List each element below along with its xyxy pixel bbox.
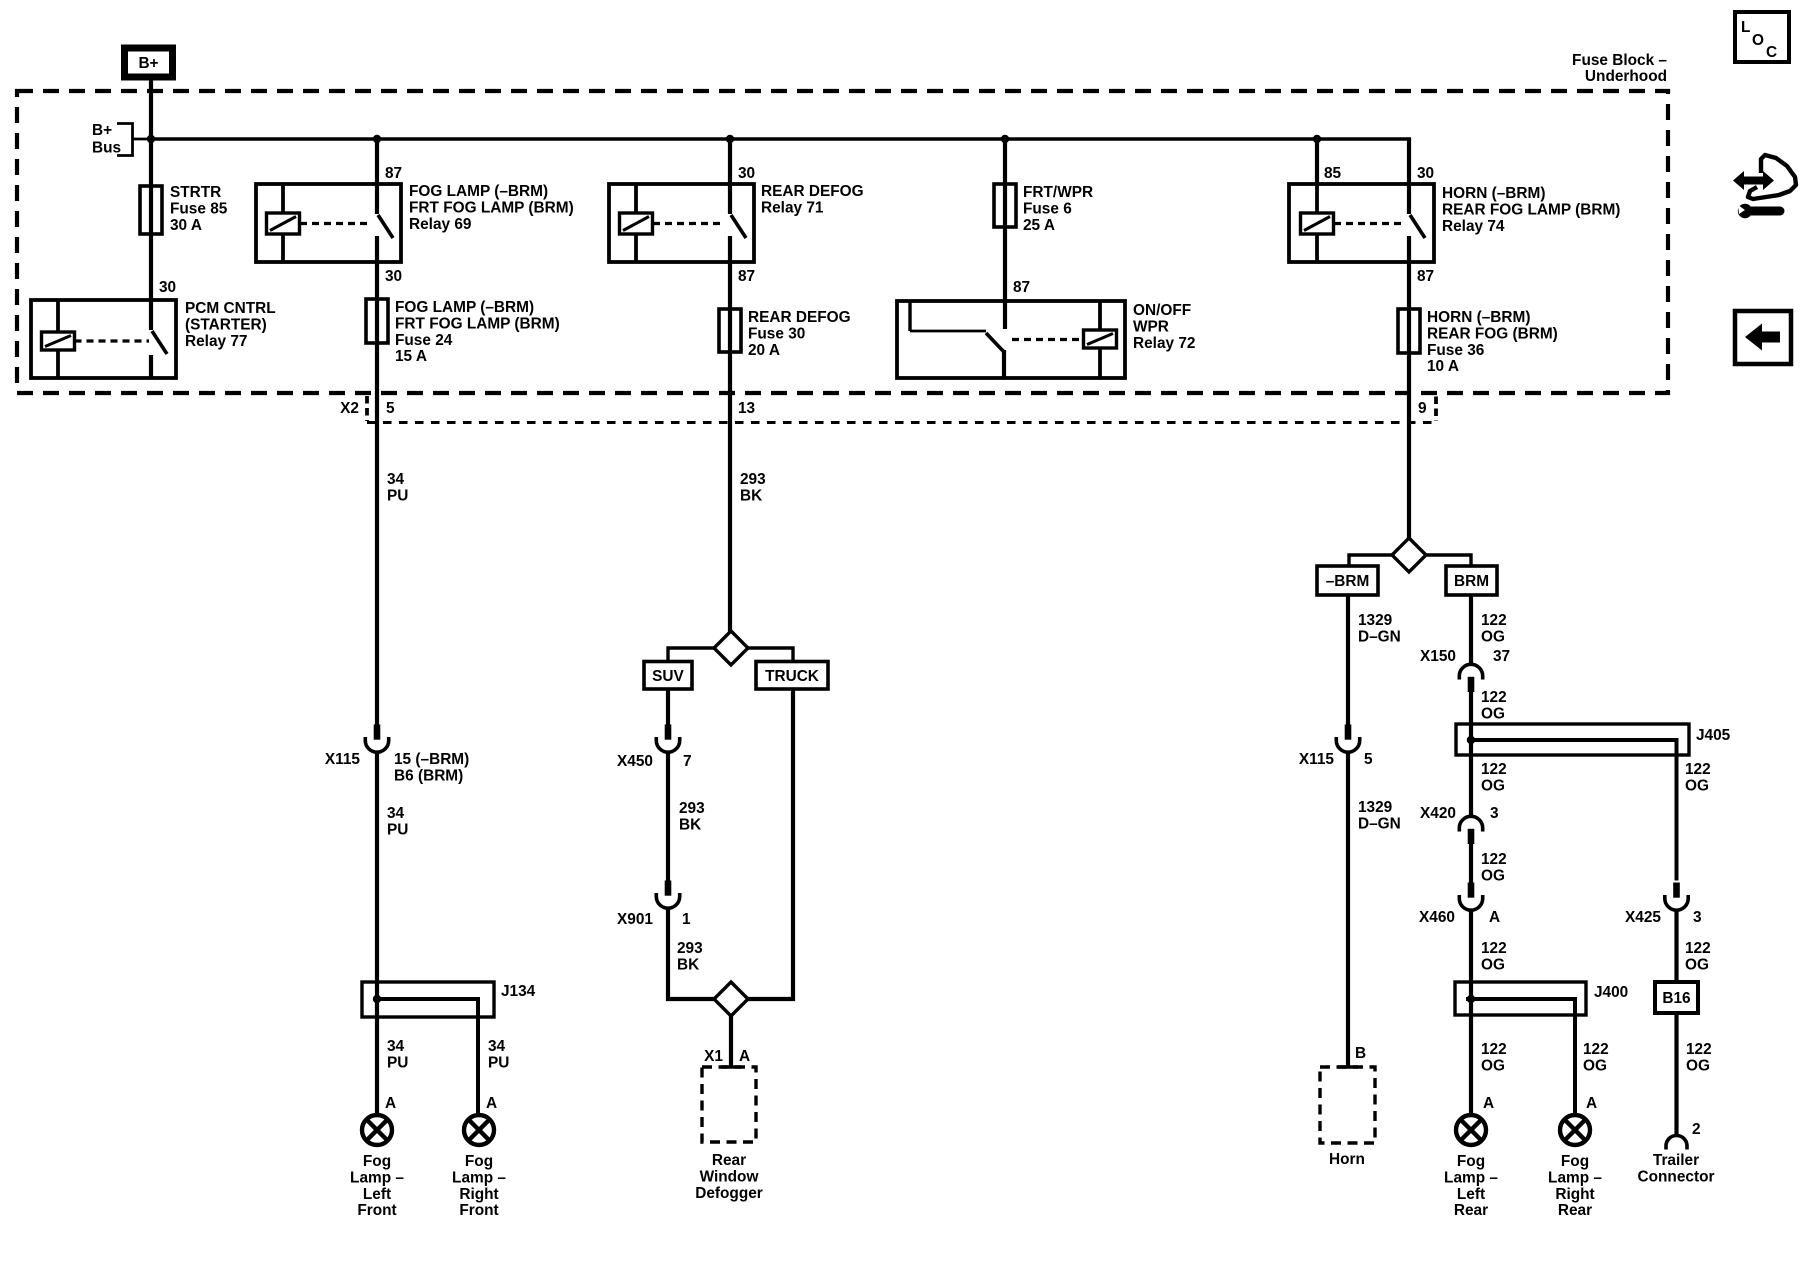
svg-text:2: 2 xyxy=(1692,1121,1701,1138)
svg-text:BK: BK xyxy=(677,956,699,973)
merge diamond to defogger xyxy=(714,982,748,1016)
svg-text:Relay 69: Relay 69 xyxy=(409,216,471,233)
wire bus to relay 69 xyxy=(375,139,379,214)
svg-text:122: 122 xyxy=(1481,689,1507,706)
wire diamond to rear window defogger xyxy=(729,1015,733,1067)
wire X460 to splice J400 xyxy=(1469,911,1473,1114)
svg-text:15 A: 15 A xyxy=(395,348,427,365)
svg-text:PU: PU xyxy=(488,1054,509,1071)
B+ bus line xyxy=(151,137,1411,141)
wire relay 74 to fuse 36 xyxy=(1407,236,1411,539)
fuse F30 REAR DEFOG xyxy=(719,309,741,352)
svg-text:ON/OFF: ON/OFF xyxy=(1133,302,1191,319)
svg-text:13: 13 xyxy=(738,400,755,417)
svg-text:Left: Left xyxy=(363,1186,391,1203)
svg-text:30: 30 xyxy=(1417,165,1434,182)
wire bus corner to relay 74 pin 30 xyxy=(1407,139,1411,214)
LOC reference icon xyxy=(1735,12,1789,62)
svg-text:122: 122 xyxy=(1481,1041,1507,1058)
svg-text:Front: Front xyxy=(357,1202,396,1219)
svg-text:PU: PU xyxy=(387,821,408,838)
svg-text:34: 34 xyxy=(387,471,405,488)
svg-text:OG: OG xyxy=(1481,777,1505,794)
node bus to fuse 6 xyxy=(1001,135,1009,143)
svg-text:9: 9 xyxy=(1418,400,1427,417)
in-line connector X115 pin 15/B6 xyxy=(374,725,381,740)
svg-text:B6 (BRM): B6 (BRM) xyxy=(394,767,463,784)
svg-text:A: A xyxy=(739,1048,750,1065)
rear window defogger component box xyxy=(721,1065,741,1069)
svg-text:J134: J134 xyxy=(501,983,536,1000)
svg-text:Front: Front xyxy=(459,1202,498,1219)
svg-text:Fuse 6: Fuse 6 xyxy=(1023,200,1072,217)
svg-text:122: 122 xyxy=(1583,1041,1609,1058)
svg-text:87: 87 xyxy=(738,268,755,285)
svg-text:PU: PU xyxy=(387,1054,408,1071)
svg-text:122: 122 xyxy=(1686,1041,1712,1058)
svg-text:5: 5 xyxy=(1364,751,1373,768)
svg-text:1329: 1329 xyxy=(1358,799,1392,816)
fuse F24 FOG LAMP xyxy=(366,299,388,343)
svg-text:X2: X2 xyxy=(340,400,359,417)
relay K77 PCM CNTRL xyxy=(31,300,176,378)
svg-text:BRM: BRM xyxy=(1454,573,1489,590)
svg-text:34: 34 xyxy=(387,805,405,822)
relay K71 REAR DEFOG xyxy=(609,184,754,262)
svg-text:X460: X460 xyxy=(1419,909,1455,926)
svg-text:34: 34 xyxy=(488,1038,506,1055)
svg-text:7: 7 xyxy=(683,753,692,770)
splice pack J400 xyxy=(1455,982,1586,1015)
svg-text:85: 85 xyxy=(1324,165,1342,182)
svg-text:REAR DEFOG: REAR DEFOG xyxy=(748,309,851,326)
svg-text:A: A xyxy=(1586,1095,1597,1112)
in-line connector X425 pin 3 xyxy=(1673,883,1680,898)
svg-text:10 A: 10 A xyxy=(1427,358,1459,375)
wire X115 to horn xyxy=(1346,753,1350,1067)
wire diamond to -BRM option xyxy=(1349,555,1392,566)
in-line connector X150 pin 37 xyxy=(1459,664,1482,679)
svg-text:30: 30 xyxy=(385,268,402,285)
svg-text:Defogger: Defogger xyxy=(695,1185,763,1202)
svg-text:WPR: WPR xyxy=(1133,318,1169,335)
in-line connector X901 pin 1 xyxy=(665,881,672,896)
svg-text:REAR FOG (BRM): REAR FOG (BRM) xyxy=(1427,325,1558,342)
svg-text:Bus: Bus xyxy=(92,140,121,157)
fog lamp left rear xyxy=(1456,1115,1486,1145)
svg-text:A: A xyxy=(1489,909,1500,926)
svg-text:PCM CNTRL: PCM CNTRL xyxy=(185,300,276,317)
svg-text:FRT FOG LAMP (BRM): FRT FOG LAMP (BRM) xyxy=(409,199,574,216)
B+ terminal xyxy=(125,48,173,77)
svg-text:X1: X1 xyxy=(704,1048,723,1065)
svg-text:87: 87 xyxy=(1417,268,1434,285)
svg-text:FRT FOG LAMP (BRM): FRT FOG LAMP (BRM) xyxy=(395,315,560,332)
in-line connector X115 pin 5 xyxy=(1345,725,1352,740)
svg-text:REAR FOG LAMP (BRM): REAR FOG LAMP (BRM) xyxy=(1442,201,1620,218)
fog lamp right front xyxy=(464,1115,494,1145)
svg-text:–BRM: –BRM xyxy=(1326,573,1370,590)
svg-text:X425: X425 xyxy=(1625,909,1661,926)
wire X901 to merge diamond xyxy=(668,909,714,999)
horn component box xyxy=(1338,1065,1358,1069)
in-line connector X450 pin 7 xyxy=(665,725,672,740)
svg-text:OG: OG xyxy=(1685,777,1709,794)
svg-text:A: A xyxy=(385,1095,396,1112)
svg-text:OG: OG xyxy=(1481,956,1505,973)
wire SUV box to X450 xyxy=(666,689,670,725)
svg-text:30 A: 30 A xyxy=(170,217,202,234)
svg-text:Relay 74: Relay 74 xyxy=(1442,218,1505,235)
svg-text:Relay 77: Relay 77 xyxy=(185,333,247,350)
svg-text:Rear: Rear xyxy=(1454,1202,1488,1219)
option box -BRM xyxy=(1317,566,1378,595)
svg-text:3: 3 xyxy=(1490,805,1499,822)
svg-text:B16: B16 xyxy=(1662,990,1690,1007)
svg-text:30: 30 xyxy=(159,279,176,296)
svg-text:PU: PU xyxy=(387,487,408,504)
svg-text:87: 87 xyxy=(1013,279,1030,296)
svg-text:STRTR: STRTR xyxy=(170,184,221,201)
wire bus to relay 71 xyxy=(728,139,732,214)
svg-text:(STARTER): (STARTER) xyxy=(185,316,267,333)
svg-text:FRT/WPR: FRT/WPR xyxy=(1023,184,1093,201)
svg-text:Fuse 85: Fuse 85 xyxy=(170,200,228,217)
fuse F85 STRTR xyxy=(140,186,162,234)
svg-text:293: 293 xyxy=(679,800,705,817)
trailer connector half circle xyxy=(1666,1136,1687,1150)
option box TRUCK xyxy=(756,662,828,690)
svg-text:Right: Right xyxy=(459,1186,498,1203)
svg-text:X901: X901 xyxy=(617,911,653,928)
svg-text:HORN (–BRM): HORN (–BRM) xyxy=(1427,309,1530,326)
svg-text:293: 293 xyxy=(740,471,766,488)
splice pack J134 xyxy=(362,982,494,1017)
fuse block underhood dashed border xyxy=(17,91,1668,393)
wire relay 71 to fuse 30 xyxy=(728,236,732,632)
wire relay 69 to fuse 24 xyxy=(375,236,379,725)
svg-text:OG: OG xyxy=(1686,1057,1710,1074)
svg-text:B+: B+ xyxy=(138,55,158,72)
svg-text:D–GN: D–GN xyxy=(1358,815,1401,832)
svg-text:5: 5 xyxy=(386,400,395,417)
svg-text:REAR DEFOG: REAR DEFOG xyxy=(761,183,864,200)
svg-text:OG: OG xyxy=(1481,705,1505,722)
svg-text:Fuse 36: Fuse 36 xyxy=(1427,342,1484,359)
svg-text:OG: OG xyxy=(1583,1057,1607,1074)
svg-text:OG: OG xyxy=(1481,1057,1505,1074)
svg-text:X115: X115 xyxy=(1299,751,1335,768)
svg-text:HORN (–BRM): HORN (–BRM) xyxy=(1442,185,1545,202)
wire TRUCK box to merge diamond xyxy=(748,689,793,999)
svg-text:Lamp –: Lamp – xyxy=(1444,1169,1498,1186)
back reference arrow icon xyxy=(1735,311,1791,364)
svg-text:Rear: Rear xyxy=(712,1152,746,1169)
wire X150 to splice J405 xyxy=(1469,691,1473,816)
in-line connector X420 pin 3 xyxy=(1459,816,1482,831)
svg-text:Relay 71: Relay 71 xyxy=(761,199,824,216)
relay K72 ON/OFF WPR xyxy=(897,301,1125,378)
svg-text:FOG LAMP (–BRM): FOG LAMP (–BRM) xyxy=(409,183,548,200)
in-line connector X460 pin A xyxy=(1468,883,1475,898)
svg-text:Horn: Horn xyxy=(1329,1151,1365,1168)
svg-text:Lamp –: Lamp – xyxy=(350,1169,404,1186)
wire bus to fuse 85 xyxy=(149,139,153,330)
svg-text:X420: X420 xyxy=(1420,805,1456,822)
wire bus to fuse 6 xyxy=(1003,139,1007,329)
svg-text:BK: BK xyxy=(740,487,762,504)
svg-text:122: 122 xyxy=(1481,761,1507,778)
svg-text:3: 3 xyxy=(1693,909,1702,926)
wire B16 to trailer connector xyxy=(1674,1013,1678,1135)
svg-text:Fuse 30: Fuse 30 xyxy=(748,325,805,342)
wire -BRM box to X115 xyxy=(1346,595,1350,725)
svg-text:BK: BK xyxy=(679,816,701,833)
branch diamond BRM options xyxy=(1392,538,1426,572)
svg-text:Right: Right xyxy=(1555,1186,1594,1203)
svg-text:Fog: Fog xyxy=(363,1153,391,1170)
wire X420 to X460 xyxy=(1469,843,1473,884)
svg-text:Trailer: Trailer xyxy=(1653,1152,1699,1169)
svg-text:15 (–BRM): 15 (–BRM) xyxy=(394,751,469,768)
svg-text:D–GN: D–GN xyxy=(1358,628,1401,645)
svg-text:Lamp –: Lamp – xyxy=(1548,1169,1602,1186)
svg-text:Fog: Fog xyxy=(1457,1153,1485,1170)
fuse F36 HORN REAR FOG xyxy=(1398,309,1420,353)
svg-text:OG: OG xyxy=(1481,867,1505,884)
svg-text:122: 122 xyxy=(1481,851,1507,868)
connector X2 dashed line xyxy=(365,396,369,421)
svg-text:293: 293 xyxy=(677,940,703,957)
option box BRM xyxy=(1446,566,1497,595)
wire X425 to B16 xyxy=(1674,911,1678,982)
svg-text:L: L xyxy=(1741,19,1750,36)
svg-text:Fog: Fog xyxy=(465,1153,493,1170)
svg-text:122: 122 xyxy=(1481,940,1507,957)
svg-text:122: 122 xyxy=(1481,612,1507,629)
svg-text:87: 87 xyxy=(385,165,402,182)
svg-text:Connector: Connector xyxy=(1638,1168,1715,1185)
svg-text:B: B xyxy=(1355,1045,1366,1062)
svg-text:SUV: SUV xyxy=(652,668,684,685)
wire X450 to X901 xyxy=(666,753,670,881)
svg-text:X150: X150 xyxy=(1420,648,1456,665)
node bus to relay 74 coil xyxy=(1313,135,1321,143)
svg-text:C: C xyxy=(1766,44,1777,61)
svg-text:1: 1 xyxy=(682,911,691,928)
svg-text:37: 37 xyxy=(1493,648,1510,665)
wire bus to relay 74 coil pin 85 xyxy=(1315,139,1319,184)
wire diamond to TRUCK option xyxy=(748,648,793,662)
svg-text:OG: OG xyxy=(1685,956,1709,973)
svg-text:Rear: Rear xyxy=(1558,1202,1592,1219)
svg-text:Lamp –: Lamp – xyxy=(452,1169,506,1186)
svg-text:Relay 72: Relay 72 xyxy=(1133,335,1195,352)
fuse F6 FRT/WPR xyxy=(994,184,1016,227)
svg-text:20 A: 20 A xyxy=(748,342,780,359)
wire B+ down to bus xyxy=(149,81,153,140)
svg-text:Left: Left xyxy=(1457,1186,1485,1203)
splice pack J405 xyxy=(1456,724,1689,755)
node bus to relay 69 xyxy=(373,135,381,143)
svg-text:Fuse 24: Fuse 24 xyxy=(395,332,453,349)
svg-text:A: A xyxy=(486,1095,497,1112)
relay K74 HORN REAR FOG xyxy=(1289,184,1434,262)
svg-text:Underhood: Underhood xyxy=(1585,68,1667,85)
svg-text:Fog: Fog xyxy=(1561,1153,1589,1170)
svg-text:J400: J400 xyxy=(1594,984,1628,1001)
node B+ bus at STRTR column xyxy=(147,135,155,143)
wire X115 to splice J134 xyxy=(375,753,379,1114)
svg-text:B+: B+ xyxy=(92,122,112,139)
node bus to relay 71 xyxy=(726,135,734,143)
svg-text:FOG LAMP (–BRM): FOG LAMP (–BRM) xyxy=(395,299,534,316)
wire BRM box to X150 xyxy=(1469,595,1473,664)
svg-text:122: 122 xyxy=(1685,761,1711,778)
svg-text:X115: X115 xyxy=(325,751,361,768)
svg-text:O: O xyxy=(1752,32,1764,49)
svg-text:X450: X450 xyxy=(617,753,653,770)
svg-text:TRUCK: TRUCK xyxy=(765,668,819,685)
svg-text:Fuse Block –: Fuse Block – xyxy=(1572,52,1667,69)
svg-text:Window: Window xyxy=(700,1168,759,1185)
diagnostic info icon xyxy=(1748,155,1796,199)
fog lamp right rear xyxy=(1560,1115,1590,1145)
svg-text:122: 122 xyxy=(1685,940,1711,957)
ground distribution B16 xyxy=(1655,982,1698,1013)
relay K69 FOG LAMP xyxy=(256,184,401,262)
svg-text:25 A: 25 A xyxy=(1023,217,1055,234)
wire diamond to BRM option xyxy=(1426,555,1471,566)
branch diamond SUV/TRUCK xyxy=(714,631,748,665)
fog lamp left front xyxy=(362,1115,392,1145)
svg-text:J405: J405 xyxy=(1696,727,1731,744)
option box SUV xyxy=(644,662,692,690)
svg-text:1329: 1329 xyxy=(1358,612,1392,629)
wire diamond to SUV option xyxy=(668,648,714,662)
svg-text:OG: OG xyxy=(1481,628,1505,645)
svg-text:A: A xyxy=(1483,1095,1494,1112)
svg-text:30: 30 xyxy=(738,165,755,182)
svg-text:34: 34 xyxy=(387,1038,405,1055)
